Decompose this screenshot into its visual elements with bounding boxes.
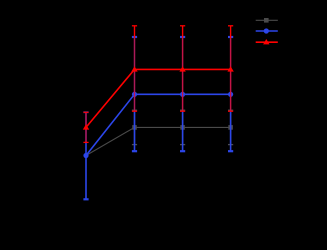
blue circle markers [83, 92, 233, 158]
legend entry red [256, 39, 278, 44]
red series error bar x1 [83, 112, 88, 142]
red series error bar x3 [180, 26, 185, 111]
red-over-blue overlap vertical x3 [182, 38, 184, 111]
red stripe over blue marker x4 [230, 91, 232, 97]
gray series error bar x4 [228, 110, 233, 145]
red triangle markers [83, 66, 234, 129]
gray series error bar x2 [132, 110, 137, 145]
legend entry gray [256, 18, 278, 23]
blue series error bar x3 [180, 37, 185, 151]
blue series error bar x1 [83, 112, 88, 199]
red-over-blue overlap vertical x2 [134, 38, 136, 111]
blue series error bar x4 [228, 37, 233, 151]
blue series error bar x2 [132, 37, 137, 151]
red series error bar x4 [228, 26, 233, 111]
gray series error bar x3 [180, 110, 185, 145]
gray square markers [132, 125, 233, 130]
red series error bar x2 [132, 26, 137, 111]
red-over-blue overlap vertical x4 [230, 38, 232, 111]
red stripe over blue marker x3 [182, 91, 184, 97]
red series line [86, 69, 231, 127]
gray series line [86, 127, 231, 155]
blue series line [86, 94, 231, 155]
legend entry blue [256, 28, 278, 33]
red stripe over blue marker x2 [134, 91, 136, 97]
